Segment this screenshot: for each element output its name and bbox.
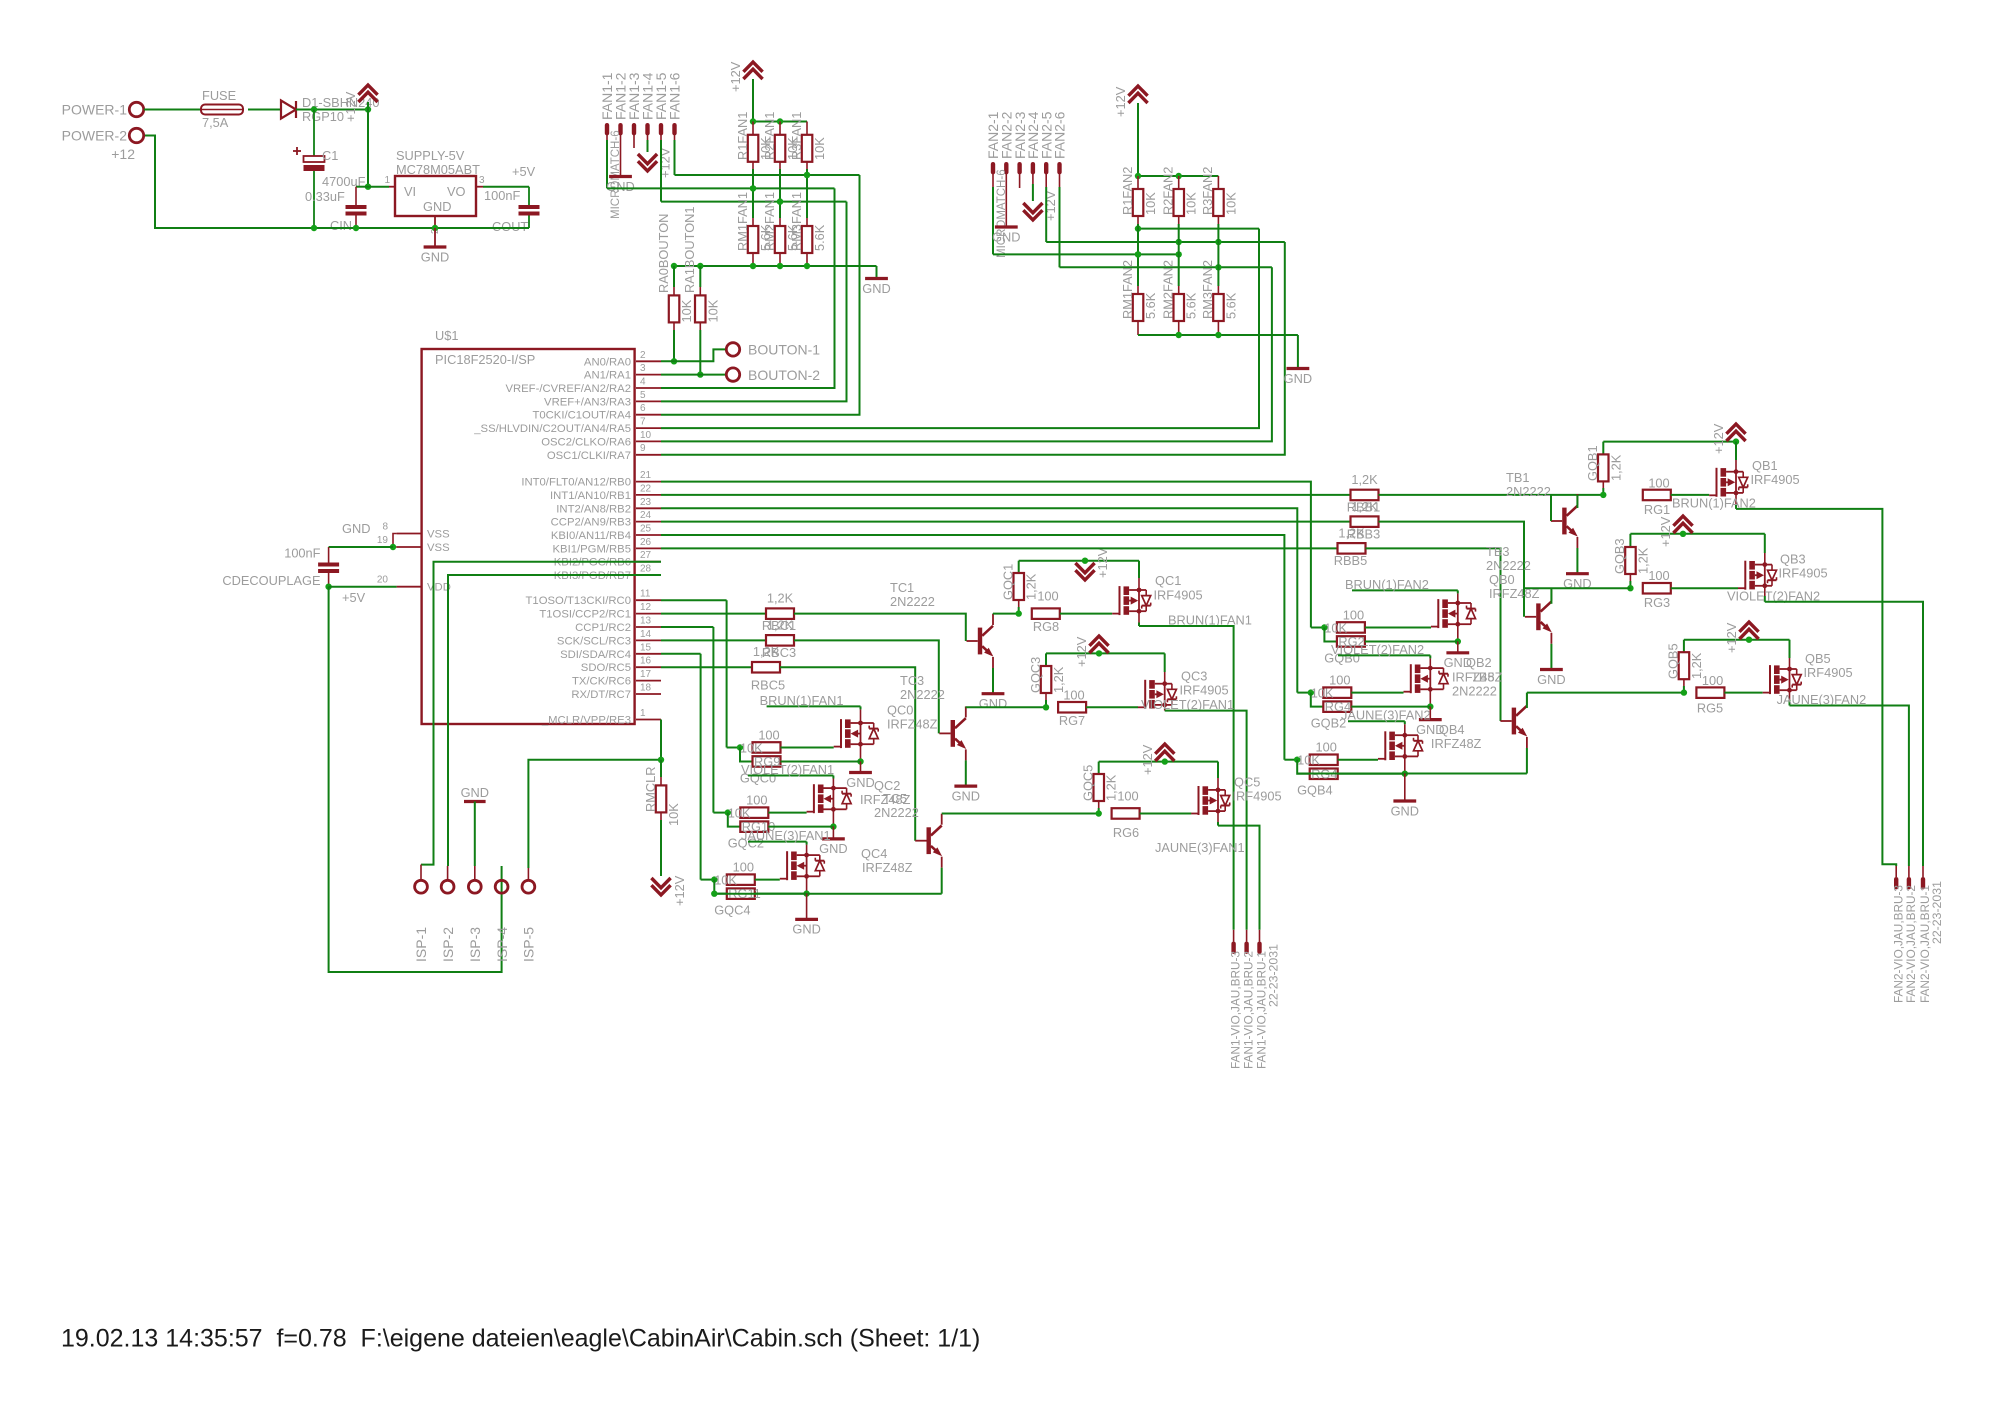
svg-text:IRFZ48Z: IRFZ48Z — [1431, 736, 1482, 751]
resistor RBB3 1,2K — [1351, 516, 1379, 527]
wire RC0 feed — [661, 599, 727, 601]
svg-text:SDO/RC5: SDO/RC5 — [581, 662, 631, 674]
connector pin FAN1-VIO,JAU,BRU-3 — [1233, 930, 1235, 942]
supply +12V rail QC3 — [1046, 652, 1165, 654]
resistor RBC1 1,2K — [766, 608, 794, 619]
wire RG8 to QC1 gate — [1060, 613, 1112, 615]
wire RBC3 to TC3 base — [794, 640, 939, 733]
resistor GQC4 10K (pulldown) — [714, 880, 727, 894]
svg-text:ISP-2: ISP-2 — [440, 927, 456, 962]
svg-text:GND: GND — [819, 841, 847, 856]
svg-text:1: 1 — [640, 708, 646, 719]
wire TC1 collector — [992, 613, 994, 615]
ground symbol QB4 — [1404, 774, 1406, 802]
resistor GQC1 1,2K — [1018, 561, 1020, 573]
wire QB5 source — [1789, 658, 1791, 669]
ground rail FAN1 dividers — [674, 265, 877, 267]
svg-text:ISP-5: ISP-5 — [521, 927, 537, 962]
supply +12V — [358, 85, 377, 95]
wire RG1 to QB1 gate — [1671, 494, 1709, 496]
wire gate feed — [1283, 759, 1285, 761]
svg-text:TC1: TC1 — [890, 580, 914, 595]
svg-text:7,5A: 7,5A — [202, 115, 229, 130]
wire VSS to decoupling — [329, 546, 393, 548]
svg-text:1,2K: 1,2K — [1338, 526, 1365, 541]
mosfet QB1 IRF4905 — [1716, 468, 1718, 497]
svg-text:5.6K: 5.6K — [1143, 292, 1158, 319]
wire divider column — [779, 162, 781, 169]
resistor RG5 100 — [1696, 687, 1724, 698]
svg-text:18: 18 — [640, 683, 652, 694]
svg-text:20: 20 — [377, 575, 389, 586]
svg-text:FAN1-6: FAN1-6 — [667, 72, 683, 120]
resistor R3FAN2 10K — [1217, 176, 1219, 189]
wire PGC (pin27) to ISP-1 — [421, 562, 661, 865]
resistor RM2FAN2 5.6K — [1174, 294, 1185, 321]
svg-text:2N2222: 2N2222 — [874, 805, 919, 820]
wire — [296, 109, 368, 111]
svg-text:QC2: QC2 — [874, 778, 900, 793]
wire TB3 collector — [1550, 588, 1552, 604]
mosfet VIOLET(2)FAN2 low-side IRFZ48Z — [1410, 664, 1412, 693]
resistor GQC5 1,2K — [1098, 762, 1100, 774]
svg-text:VSS: VSS — [427, 542, 450, 554]
svg-text:KBI0/AN11/RB4: KBI0/AN11/RB4 — [551, 530, 631, 542]
connector pad POWER-1 — [129, 102, 143, 116]
connector pin FAN1-VIO,JAU,BRU-2 — [1246, 930, 1248, 942]
wire RB2 feed — [661, 508, 1297, 692]
mosfet BRUN(1)FAN2 low-side IRFZ48Z — [1437, 599, 1439, 628]
wire +5V out — [483, 186, 529, 188]
wire QC5 source to +12V — [1217, 778, 1219, 790]
svg-text:INT1/AN10/RB1: INT1/AN10/RB1 — [550, 490, 631, 502]
svg-text:IRF4905: IRF4905 — [1779, 566, 1828, 581]
supply +12V rail QC1 — [1019, 560, 1139, 562]
svg-text:RBC5: RBC5 — [751, 678, 785, 693]
wire RG5 to QB5 gate — [1724, 692, 1762, 694]
pin 8 VSS — [397, 533, 422, 535]
wire VDD +5V — [329, 586, 397, 588]
svg-text:3: 3 — [640, 363, 646, 374]
fuse FUSE 7,5A — [201, 105, 243, 115]
svg-text:10K: 10K — [1311, 685, 1334, 700]
wire tach row (FAN2-6 to RA6) — [1060, 266, 1272, 268]
wire drain stub JAUNE(3)FAN2 — [1404, 724, 1406, 735]
svg-text:COUT: COUT — [492, 219, 528, 234]
wire TB3 emitter ground — [1550, 644, 1552, 670]
svg-text:GQB4: GQB4 — [1297, 783, 1333, 798]
wire to gate — [1351, 692, 1403, 694]
svg-text:TB3: TB3 — [1486, 544, 1509, 559]
wire gate feed — [700, 654, 702, 880]
wire RB3 to RBB3 — [661, 521, 1351, 523]
wire pin1 MCLR — [660, 720, 662, 760]
svg-text:1,2K: 1,2K — [753, 644, 780, 659]
ground symbol TC1 — [982, 692, 1005, 695]
svg-text:POWER-1: POWER-1 — [62, 102, 128, 118]
wire to gate — [781, 747, 834, 749]
wire TC5 emitter to ground rail — [941, 868, 943, 894]
pin FAN2-5 lead — [1045, 167, 1047, 187]
svg-text:BRUN(1)FAN2: BRUN(1)FAN2 — [1345, 577, 1429, 592]
pin 14 SCK/SCL/RC3 — [636, 639, 661, 641]
wire TB1 emitter ground — [1576, 548, 1578, 574]
wire TC3 collector — [965, 706, 967, 708]
svg-text:GND: GND — [992, 229, 1020, 244]
resistor RG11 100 (series) — [727, 874, 755, 885]
svg-text:GQB5: GQB5 — [1666, 643, 1681, 679]
svg-text:21: 21 — [640, 470, 652, 481]
svg-text:100: 100 — [1648, 568, 1669, 583]
connector pin FAN2-VIO,JAU,BRU-2 — [1908, 866, 1910, 877]
svg-text:CCP1/RC2: CCP1/RC2 — [575, 622, 631, 634]
resistor RG1 100 — [1643, 490, 1671, 501]
wire RG3 to QB3 gate — [1671, 587, 1738, 589]
wire RG7 to QC3 gate — [1086, 706, 1138, 708]
supply +12V at RMCLR — [651, 885, 670, 895]
pin 15 SDI/SDA/RC4 — [636, 653, 661, 655]
resistor RBB1 1,2K — [1351, 490, 1379, 501]
svg-text:10K: 10K — [666, 803, 681, 826]
svg-text:T1OSO/T13CKI/RC0: T1OSO/T13CKI/RC0 — [526, 595, 631, 607]
pin 1 _MCLR/VPP/RE3 — [636, 719, 661, 721]
wire RBC1 to TC1 base — [794, 614, 966, 641]
svg-text:QC5: QC5 — [1234, 775, 1260, 790]
svg-text:10K: 10K — [740, 740, 763, 755]
svg-text:1,2K: 1,2K — [1608, 454, 1623, 481]
wire divider column — [806, 162, 808, 169]
resistor GQC2 10K (pulldown) — [728, 813, 741, 827]
svg-text:FAN2-VIO,JAU,BRU-2: FAN2-VIO,JAU,BRU-2 — [1904, 885, 1918, 1003]
svg-text:26: 26 — [640, 537, 652, 548]
wire source to ground — [1404, 757, 1406, 774]
supply +12V rail QC5 — [1099, 761, 1218, 763]
resistor RG4 100 (series) — [1323, 687, 1351, 698]
capacitor COUT 100nF — [528, 187, 530, 205]
ground symbol QC4 — [806, 894, 808, 920]
svg-text:KBI1/PGM/RB5: KBI1/PGM/RB5 — [553, 543, 631, 555]
svg-text:2N2222: 2N2222 — [890, 594, 935, 609]
capacitor CIN 0.33uF — [356, 186, 368, 188]
pin 26 KBI1/PGM/RB5 — [636, 547, 661, 549]
svg-text:R2FAN2: R2FAN2 — [1161, 167, 1176, 215]
wire gate feed — [1296, 692, 1298, 694]
svg-text:FAN1-VIO,JAU,BRU-2: FAN1-VIO,JAU,BRU-2 — [1242, 951, 1256, 1069]
svg-text:RG6: RG6 — [1113, 825, 1139, 840]
wire +5V down to ISP-4 — [329, 587, 502, 972]
pin 20 VDD — [397, 586, 422, 588]
pin 3 VO — [476, 186, 483, 188]
svg-text:QB4: QB4 — [1439, 722, 1465, 737]
wire to gate — [1365, 627, 1431, 629]
svg-text:RA0BOUTON: RA0BOUTON — [656, 214, 671, 293]
svg-text:1,2K: 1,2K — [1351, 472, 1378, 487]
svg-text:10K: 10K — [1297, 753, 1320, 768]
svg-text:GND: GND — [792, 922, 820, 937]
pin 2 AN0/RA0 — [636, 360, 661, 362]
pin 27 KBI2/PGC/RB6 — [636, 561, 661, 563]
wire QB3 source — [1764, 553, 1766, 565]
svg-text:11: 11 — [640, 589, 651, 600]
wire drain stub BRUN(1)FAN2 — [1457, 593, 1459, 602]
wire TC1 emitter to ground — [992, 668, 994, 694]
svg-text:RM2FAN1: RM2FAN1 — [762, 192, 777, 251]
svg-text:25: 25 — [640, 524, 652, 535]
resistor GQB4 10K (pulldown) — [1297, 760, 1310, 774]
svg-text:TB1: TB1 — [1506, 470, 1529, 485]
svg-text:SDI/SDA/RC4: SDI/SDA/RC4 — [560, 649, 631, 661]
svg-text:RMCLR: RMCLR — [643, 766, 658, 812]
mosfet QB3 IRF4905 — [1744, 561, 1746, 590]
wire tach row B (FAN1-5 to RA3) — [661, 201, 847, 203]
wire drain stub JAUNE(3)FAN1 — [806, 845, 808, 855]
svg-text:10K: 10K — [728, 805, 751, 820]
svg-text:28: 28 — [640, 564, 652, 575]
svg-text:100nF: 100nF — [284, 546, 320, 561]
wire TB3 collector to GQB3 node — [1524, 587, 1630, 589]
svg-text:R3FAN2: R3FAN2 — [1200, 167, 1215, 215]
svg-text:QC4: QC4 — [861, 846, 887, 861]
svg-text:5: 5 — [640, 390, 646, 401]
ground symbol GND — [434, 228, 436, 247]
wire pulldown to ground — [1365, 641, 1458, 643]
wire tach row A (FAN1-1 to RA2) — [607, 187, 835, 189]
svg-text:27: 27 — [640, 550, 652, 561]
svg-text:6: 6 — [640, 403, 646, 414]
wire to gate — [1338, 759, 1378, 761]
resistor RA1BOUTON1 10K — [699, 266, 701, 287]
ground wire rail — [144, 136, 529, 229]
pin 16 SDO/RC5 — [636, 666, 661, 668]
svg-text:TX/CK/RC6: TX/CK/RC6 — [572, 676, 631, 688]
ground symbol at FAN1-2 — [620, 128, 622, 177]
svg-text:9: 9 — [640, 443, 646, 454]
wire PGD (pin28) to ISP-2 — [448, 575, 661, 866]
svg-text:100: 100 — [1702, 673, 1723, 688]
resistor GQB2 10K (pulldown) — [1311, 693, 1324, 707]
capacitor CDECOUPLAGE 100nF — [328, 547, 330, 563]
supply +12V rail QB3 — [1630, 533, 1764, 535]
svg-text:+12V: +12V — [343, 91, 358, 122]
svg-text:23: 23 — [640, 497, 652, 508]
svg-text:GQC5: GQC5 — [1081, 765, 1096, 801]
svg-text:+12V: +12V — [1113, 86, 1128, 117]
svg-text:GQC3: GQC3 — [1028, 657, 1043, 693]
pin 25 KBI0/AN11/RB4 — [636, 534, 661, 536]
wire BOUTON-2 — [661, 374, 726, 376]
svg-text:CCP2/AN9/RB3: CCP2/AN9/RB3 — [551, 517, 631, 529]
wire QB3 drain VIOLET(2)FAN2 — [1764, 586, 1766, 596]
svg-text:IRFZ48Z: IRFZ48Z — [887, 717, 938, 732]
svg-text:RBB5: RBB5 — [1334, 553, 1367, 568]
mosfet QC1 IRF4905 — [1119, 586, 1121, 615]
svg-text:2N2222: 2N2222 — [1486, 558, 1531, 573]
wire QC3 source to +12V — [1164, 672, 1166, 684]
pin 17 TX/CK/RC6 — [636, 680, 661, 682]
wire QB5 drain JAUNE(3)FAN2 — [1789, 690, 1791, 700]
svg-text:10K: 10K — [1184, 192, 1199, 215]
wire drain stub VIOLET(2)FAN1 — [832, 779, 834, 788]
svg-text:10K: 10K — [1143, 192, 1158, 215]
svg-text:100: 100 — [1037, 589, 1058, 604]
supply +12V rail QB1 — [1603, 441, 1736, 443]
svg-text:CIN: CIN — [330, 218, 352, 233]
wire source to ground — [860, 745, 862, 762]
pin FAN2-1 lead — [992, 167, 994, 187]
resistor RG8 100 — [1032, 608, 1060, 619]
svg-text:OSC1/CLKI/RA7: OSC1/CLKI/RA7 — [547, 450, 631, 462]
ground rail FAN2 low side — [1297, 773, 1527, 775]
wire QC3 drain VIOLET(2)FAN1 — [1164, 705, 1166, 711]
resistor RG9 100 (series) — [753, 742, 781, 753]
svg-text:VIOLET(2)FAN1: VIOLET(2)FAN1 — [741, 762, 834, 777]
svg-text:POWER-2: POWER-2 — [62, 128, 128, 144]
resistor RM2FAN1 5.6K — [775, 226, 786, 253]
resistor GQB5 1,2K — [1683, 640, 1685, 653]
svg-text:10K: 10K — [1223, 192, 1238, 215]
svg-text:+5V: +5V — [342, 590, 366, 605]
svg-text:100: 100 — [1648, 475, 1669, 490]
wire RBB3 to TB3 base — [1379, 522, 1525, 617]
wire +12 node to regulator — [367, 110, 369, 187]
svg-text:16: 16 — [640, 656, 652, 667]
svg-text:+12V: +12V — [728, 61, 743, 92]
svg-text:RG5: RG5 — [1697, 701, 1723, 716]
svg-text:R1FAN1: R1FAN1 — [735, 112, 750, 160]
svg-text:R2FAN1: R2FAN1 — [762, 112, 777, 160]
wire — [248, 109, 281, 111]
svg-text:U$1: U$1 — [435, 328, 458, 343]
voltage regulator SUPPLY-5V MC78M05ABT — [395, 176, 476, 216]
svg-text:GND: GND — [1284, 371, 1312, 386]
wire source to ground — [1457, 625, 1459, 642]
svg-text:5.6K: 5.6K — [1184, 292, 1199, 319]
svg-text:BOUTON-2: BOUTON-2 — [748, 367, 820, 383]
resistor RG4 100 (series) — [1310, 755, 1338, 766]
svg-text:IRFZ48Z: IRFZ48Z — [1489, 586, 1540, 601]
svg-text:RG1: RG1 — [1644, 502, 1670, 517]
svg-text:MC78M05ABT: MC78M05ABT — [396, 162, 480, 177]
wire to gate — [768, 812, 806, 814]
resistor RM3FAN2 5.6K — [1213, 294, 1224, 321]
svg-text:+12V: +12V — [1711, 423, 1726, 454]
pin 5 VREF+/AN3/RA3 — [636, 400, 661, 402]
svg-text:BRUN(1)FAN1: BRUN(1)FAN1 — [760, 693, 844, 708]
wire QB1 drain BRUN(1)FAN2 — [1735, 493, 1737, 504]
wire pulldown to ground — [781, 761, 861, 763]
wire gate feed — [712, 627, 714, 813]
svg-text:RM1FAN1: RM1FAN1 — [735, 192, 750, 251]
svg-text:22-23-2031: 22-23-2031 — [1930, 881, 1944, 944]
wire drain stub BRUN(1)FAN1 — [860, 709, 862, 722]
pin 2 GND of regulator — [434, 216, 436, 228]
svg-text:VO: VO — [447, 184, 466, 199]
wire source to ground — [1429, 690, 1431, 707]
svg-text:100: 100 — [1063, 688, 1084, 703]
wire pulldown to ground — [1338, 773, 1405, 775]
ground symbol — [865, 277, 888, 280]
svg-text:IRF4905: IRF4905 — [1751, 472, 1800, 487]
svg-text:R1FAN2: R1FAN2 — [1120, 167, 1135, 215]
svg-text:10K: 10K — [714, 872, 737, 887]
svg-text:QB5: QB5 — [1805, 651, 1831, 666]
svg-text:+12V: +12V — [1140, 744, 1155, 775]
pin 3 AN1/RA1 — [636, 374, 661, 376]
ground symbol QC0 — [860, 762, 862, 773]
svg-text:IRF4905: IRF4905 — [1804, 665, 1853, 680]
svg-text:VI: VI — [404, 184, 416, 199]
mosfet QC5 IRF4905 — [1198, 786, 1200, 815]
wire RC1 to RBC1 — [661, 613, 766, 615]
svg-text:RM2FAN2: RM2FAN2 — [1161, 260, 1176, 319]
svg-text:CDECOUPLAGE: CDECOUPLAGE — [222, 573, 320, 588]
svg-text:10K: 10K — [679, 299, 694, 322]
svg-text:17: 17 — [640, 669, 652, 680]
svg-text:IRF4905: IRF4905 — [1180, 683, 1229, 698]
svg-text:RG8: RG8 — [1033, 619, 1059, 634]
pin 23 INT2/AN8/RB2 — [636, 507, 661, 509]
microcontroller U$1 PIC18F2520-I/SP — [422, 349, 635, 724]
svg-text:GND: GND — [979, 696, 1007, 711]
svg-text:GND: GND — [952, 788, 980, 803]
pin 19 VSS — [397, 546, 422, 548]
wire gate feed — [726, 600, 728, 747]
wire gate feed — [1310, 627, 1312, 629]
svg-text:+5V: +5V — [512, 164, 536, 179]
resistor R3FAN1 10K — [806, 122, 808, 135]
svg-text:19.02.13 14:35:57 f=0.78 F:\: 19.02.13 14:35:57 f=0.78 F:\eigene datei… — [61, 1325, 980, 1353]
supply +12V rail FAN1 dividers — [743, 62, 762, 72]
resistor GQB3 1,2K — [1629, 534, 1631, 547]
svg-text:QC1: QC1 — [1155, 573, 1181, 588]
svg-text:IRFZ48Z: IRFZ48Z — [860, 792, 911, 807]
svg-text:GND: GND — [606, 179, 634, 194]
svg-text:1,2K: 1,2K — [1351, 499, 1378, 514]
svg-text:R3FAN1: R3FAN1 — [789, 112, 804, 160]
svg-text:VREF-/CVREF/AN2/RA2: VREF-/CVREF/AN2/RA2 — [505, 383, 631, 395]
connector pin FAN2-VIO,JAU,BRU-1 — [1922, 866, 1924, 877]
wire RB4 feed — [661, 535, 1284, 760]
wire source to ground — [832, 810, 834, 827]
svg-text:+12V: +12V — [672, 875, 687, 906]
mosfet BRUN(1)FAN1 low-side IRFZ48Z — [840, 719, 842, 748]
pin 9 OSC1/CLKI/RA7 — [636, 454, 661, 456]
svg-text:JAUNE(3)FAN1: JAUNE(3)FAN1 — [1155, 840, 1245, 855]
resistor GQB0 10K (pulldown) — [1324, 628, 1337, 642]
svg-text:RM1FAN2: RM1FAN2 — [1120, 260, 1135, 319]
svg-text:SCK/SCL/RC3: SCK/SCL/RC3 — [557, 635, 631, 647]
supply +12V rail QB5 — [1684, 639, 1790, 641]
resistor RM1FAN2 5.6K — [1133, 294, 1144, 321]
wire pulldown to ground — [755, 893, 807, 895]
connector pad ISP-5 — [522, 880, 535, 893]
svg-text:VSS: VSS — [427, 529, 450, 541]
resistor RG7 100 — [1058, 702, 1086, 713]
diode D1-SBHN240 RGP10 — [281, 101, 296, 119]
svg-text:C1: C1 — [322, 148, 338, 163]
svg-text:+12V: +12V — [1724, 622, 1739, 653]
wire RB0 feed — [661, 482, 1311, 628]
svg-text:QB3: QB3 — [1780, 552, 1806, 567]
svg-text:AN1/RA1: AN1/RA1 — [584, 370, 631, 382]
ground symbol TB1 — [1566, 572, 1589, 575]
resistor RBC3 1,2K — [766, 635, 794, 646]
pin 22 INT1/AN10/RB1 — [636, 494, 661, 496]
svg-text:GND: GND — [1537, 672, 1565, 687]
svg-text:_SS/HLVDIN/C2OUT/AN4/RA5: _SS/HLVDIN/C2OUT/AN4/RA5 — [473, 423, 631, 435]
resistor RG10 100 (series) — [740, 807, 768, 818]
wire tach row (FAN2-5 to RA7) — [1046, 241, 1285, 243]
